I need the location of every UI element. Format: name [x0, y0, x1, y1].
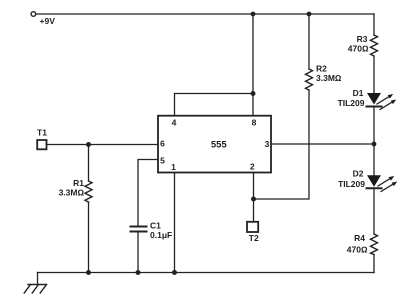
svg-text:1: 1: [171, 162, 176, 172]
LED D2: [367, 175, 398, 191]
op-amp/timer IC 555: [158, 116, 271, 173]
wire: D1 to pin-3 node: [373, 107, 375, 144]
node: R1 / bottom rail: [86, 270, 91, 275]
terminal T2: [247, 222, 258, 232]
svg-text:T2: T2: [249, 233, 259, 243]
svg-text:TIL209: TIL209: [338, 98, 365, 108]
+9V supply terminal: [31, 12, 36, 17]
svg-text:R3: R3: [357, 34, 368, 44]
ground: [24, 285, 46, 294]
wire: pin 2 down: [253, 173, 255, 200]
svg-text:2: 2: [250, 162, 255, 172]
wire: T1 to pin 6: [47, 144, 159, 146]
resistor R3: [371, 35, 378, 56]
svg-text:R2: R2: [316, 64, 327, 74]
node: pin-3 junction on LED column: [372, 142, 377, 147]
svg-text:3: 3: [265, 139, 270, 149]
svg-text:6: 6: [160, 139, 165, 149]
wire: D2 to R4: [373, 188, 375, 234]
svg-text:4: 4: [172, 117, 177, 127]
capacitor C1: [131, 227, 147, 232]
node: top rail / R2 branch: [307, 12, 312, 17]
svg-text:TIL209: TIL209: [338, 179, 365, 189]
svg-text:C1: C1: [150, 221, 161, 231]
wire: pin 1 to bottom rail: [174, 173, 176, 273]
svg-text:T1: T1: [37, 127, 47, 137]
wire: R1 to bottom rail: [88, 202, 90, 273]
wire: R2 to pin-2 node row: [254, 90, 310, 199]
svg-text:D1: D1: [353, 88, 364, 98]
svg-text:555: 555: [211, 139, 228, 150]
svg-text:8: 8: [252, 117, 257, 127]
wire: R4 to bottom rail: [373, 255, 375, 273]
wire: R3 to D1: [373, 56, 375, 94]
wire: R2 column from top rail: [308, 14, 310, 69]
node: pin 1 / bottom rail: [172, 270, 177, 275]
resistor R4: [371, 234, 378, 255]
node: top rail / pin-8 branch: [251, 12, 256, 17]
node: pin4/pin8 jumper junction: [251, 91, 256, 96]
svg-text:R1: R1: [73, 178, 84, 188]
wire: R1 column upper: [88, 145, 90, 182]
terminal T1: [37, 140, 46, 149]
wire: pin 5 to C1: [138, 160, 158, 227]
wire: right column, rail to R3: [373, 14, 375, 35]
wire: pin 3 to LED column: [271, 143, 374, 145]
node: C1 / bottom rail: [136, 270, 141, 275]
svg-text:R4: R4: [354, 233, 365, 243]
LED D1: [367, 93, 397, 110]
wire: pin 4 jumper to pin-8 line: [175, 94, 254, 116]
svg-text:3.3MΩ: 3.3MΩ: [59, 188, 85, 198]
svg-text:5: 5: [160, 156, 165, 166]
wire: rail drop to ground: [37, 273, 39, 285]
svg-text:D2: D2: [353, 169, 364, 179]
svg-text:470Ω: 470Ω: [347, 245, 368, 255]
node: pin 2 junction: [251, 197, 256, 202]
wire: C1 to bottom rail: [137, 232, 139, 273]
resistor R2: [306, 69, 313, 90]
resistor R1: [85, 181, 92, 202]
wire: bottom ground rail: [38, 272, 375, 274]
svg-text:470Ω: 470Ω: [348, 44, 369, 54]
wire: +9V top rail: [36, 13, 374, 15]
wire: pin 8 from top rail to IC: [252, 14, 254, 116]
wire: pin-2 node to T2: [253, 199, 255, 222]
wire: pin-3 node to D2: [373, 144, 375, 175]
svg-text:+9V: +9V: [40, 16, 56, 26]
svg-text:0.1μF: 0.1μF: [150, 230, 172, 240]
node: R1 top junction: [86, 142, 91, 147]
svg-text:3.3MΩ: 3.3MΩ: [316, 73, 342, 83]
